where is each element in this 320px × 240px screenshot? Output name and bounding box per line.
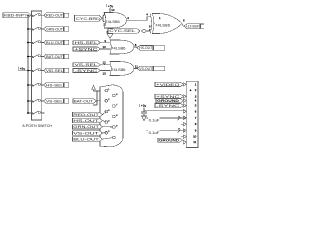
svg-text:11: 11 <box>193 140 196 144</box>
svg-text:74LS86: 74LS86 <box>155 24 170 28</box>
wire <box>103 126 113 128</box>
net label GROUND (to P2 pin 11) <box>158 138 183 142</box>
+5v tap on rail <box>19 67 28 71</box>
svg-text:VS-SEL: VS-SEL <box>75 63 98 67</box>
P2 pin 9 <box>183 129 186 132</box>
svg-text:GROUND: GROUND <box>159 139 180 143</box>
svg-text:VS-OUT: VS-OUT <box>73 131 99 135</box>
net label VS-SEL (to gate) <box>73 63 101 67</box>
diamond terminator <box>141 29 147 32</box>
switch S1-3 <box>27 41 44 45</box>
wire <box>103 138 113 139</box>
svg-text:GRN-OUT: GRN-OUT <box>73 125 99 129</box>
P1 pin 4 <box>105 121 108 124</box>
wires into U1C <box>101 43 111 49</box>
svg-text:HS-SEL: HS-SEL <box>46 83 63 87</box>
net label +SYNC <box>155 94 184 99</box>
svg-text:+5v: +5v <box>141 104 147 108</box>
net label BAT-OUT row4 <box>44 54 69 59</box>
P1 pin 5 <box>105 131 108 134</box>
svg-text:+12-BUF: +12-BUF <box>186 25 200 29</box>
net label GROUND <box>156 99 184 103</box>
P2 pin 3 <box>183 95 186 98</box>
wire input rail <box>28 15 32 113</box>
svg-text:14: 14 <box>111 8 115 12</box>
svg-text:VS-SEL: VS-SEL <box>46 99 63 103</box>
svg-text:HS-OUT: HS-OUT <box>139 46 152 50</box>
ground bus at P1 <box>93 91 97 105</box>
svg-text:74LS86: 74LS86 <box>111 46 126 50</box>
switch S1-1 <box>27 13 44 17</box>
svg-text:13: 13 <box>103 72 107 76</box>
svg-text:0.1uF: 0.1uF <box>149 119 160 123</box>
ground arrow at P1 <box>92 85 96 91</box>
svg-text:BAT-OUT: BAT-OUT <box>74 99 93 103</box>
+5v to U1A pin 14 <box>107 4 115 13</box>
capacitor C2 label 0.1uF <box>148 117 160 122</box>
switch S1-7 <box>27 99 44 103</box>
svg-text:RED-OUT: RED-OUT <box>73 113 99 117</box>
svg-text:BLU-OUT: BLU-OUT <box>73 137 99 141</box>
wire gnd to P1 pin1 <box>94 90 105 92</box>
net label RED-OUT row1 <box>44 13 69 18</box>
P1 pin 2 <box>105 99 108 102</box>
net label -SYNC <box>155 104 184 109</box>
svg-text:CYC-BRD: CYC-BRD <box>76 17 101 21</box>
P2 pin 6 <box>183 110 186 113</box>
net label KBD-INP <box>3 13 31 18</box>
connector P2 outline <box>186 81 198 147</box>
svg-text:BAT-OUT: BAT-OUT <box>46 55 63 59</box>
switch S1-6 <box>27 83 44 87</box>
svg-text:HS-OUT: HS-OUT <box>73 119 99 123</box>
wire U1A out to U1B pin4 <box>127 17 152 20</box>
xor gate U1A 74LS86 <box>105 13 127 29</box>
switch S1-4 <box>27 55 44 59</box>
svg-text:GROUND: GROUND <box>157 99 180 103</box>
svg-text:RED-OUT: RED-OUT <box>46 13 63 17</box>
wire <box>183 140 187 142</box>
P2 pin 2 (n/c dot) <box>190 89 192 91</box>
net label GRN-OUT (to P1) <box>73 125 103 129</box>
net label VS-OUT <box>137 66 165 71</box>
net label +VIDEO <box>155 82 184 87</box>
connector P1 DB9 outline <box>100 85 123 147</box>
svg-text:-SYNC: -SYNC <box>75 69 99 73</box>
xor gate U1C 74LS86 <box>110 40 134 54</box>
P2 pin 10 <box>183 135 186 138</box>
switch box outline S1 <box>32 11 42 120</box>
svg-text:0.1uF: 0.1uF <box>149 131 160 135</box>
P2 pin 5 <box>183 104 186 107</box>
net label CYC-SEL <box>108 29 140 34</box>
wire to U1A inputs <box>102 16 105 22</box>
svg-text:74LS86: 74LS86 <box>111 68 126 72</box>
wire U1B out <box>182 24 184 27</box>
wire to P2 pin 9 <box>147 129 187 131</box>
wire <box>103 121 107 122</box>
net label VS-SEL row7 <box>44 99 69 104</box>
wire U1D out <box>134 68 137 70</box>
svg-text:VID-SEL: VID-SEL <box>46 69 63 73</box>
P2 pin 8 <box>183 123 186 126</box>
P2 pin 7 <box>183 116 186 119</box>
xor gate U1D 74LS86 <box>110 62 134 76</box>
svg-text:CYC-SEL: CYC-SEL <box>109 29 135 33</box>
P2 pin 1 <box>183 83 186 86</box>
svg-text:HS-SEL: HS-SEL <box>75 41 98 45</box>
ground pin 7 of U1 <box>106 28 113 39</box>
capacitor C1 <box>141 108 147 121</box>
svg-text:+SYNC: +SYNC <box>75 47 99 51</box>
net label VID-SEL row5 <box>44 68 69 73</box>
P1 pin 8 <box>113 115 116 118</box>
svg-text:GRN-OUT: GRN-OUT <box>46 27 63 31</box>
wire <box>103 132 107 134</box>
+5v supply for P2 pin 6 <box>140 104 147 108</box>
capacitor C3 label 0.1uF <box>148 130 160 135</box>
svg-text:10: 10 <box>193 135 197 139</box>
net label GRN-OUT row2 <box>44 27 69 32</box>
wire to U1B pin5 <box>147 29 151 31</box>
svg-text:+5v: +5v <box>20 67 26 71</box>
P2 pin 11 <box>183 141 186 144</box>
net label HS-SEL (to gate) <box>73 41 101 45</box>
net label BAT-OUT (to P1) <box>73 99 97 104</box>
switch S1-8 <box>27 111 44 115</box>
wire to P1 pin2 <box>97 100 105 102</box>
net label HS-SEL row6 <box>44 83 69 88</box>
svg-text:KBD-INP?: KBD-INP? <box>4 14 27 18</box>
svg-text:+VIDEO: +VIDEO <box>156 83 180 87</box>
no-connect marker on pin9 wire <box>178 128 181 132</box>
svg-text:VS-OUT: VS-OUT <box>139 67 152 71</box>
svg-text:12: 12 <box>103 60 107 64</box>
P1 pin 1 <box>105 89 108 92</box>
wires into U1D <box>101 64 111 70</box>
svg-text:10: 10 <box>103 45 107 49</box>
no-connect marker on pin7 wire <box>178 116 181 120</box>
svg-text:74LS86: 74LS86 <box>105 20 120 24</box>
svg-text:8-POS'N SWITCH: 8-POS'N SWITCH <box>23 124 53 128</box>
P1 pin 9 <box>113 126 116 129</box>
wire to P2 pin 7 <box>147 117 187 119</box>
net label HS-OUT <box>137 46 165 51</box>
P1 pin 6 <box>113 94 116 97</box>
switch S1-5 <box>27 69 44 73</box>
switch S1-2 <box>27 27 44 31</box>
net label VS-OUT (to P1) <box>73 131 103 135</box>
P1 pin 10 <box>113 136 116 139</box>
net label +12-BUF <box>184 24 204 29</box>
svg-text:-SYNC: -SYNC <box>156 104 181 108</box>
xor gate U1B 74LS86 <box>150 14 182 34</box>
wire <box>103 112 107 115</box>
P1 pin 7 <box>113 105 116 108</box>
P2 pin 4 <box>183 99 186 102</box>
P1 pin 3 <box>105 110 108 113</box>
net label -SYNC (to gate) <box>73 69 101 73</box>
net label HS-OUT (to P1) <box>73 118 103 122</box>
wire U1C out <box>134 46 137 49</box>
wire +5v node to P2 pin 6 <box>144 110 187 111</box>
net label +SYNC (to gate) <box>73 47 101 51</box>
net label CYC-BRD <box>75 15 103 21</box>
net label BLU-OUT (to P1) <box>73 137 103 141</box>
net label BLU-OUT row3 <box>44 40 69 45</box>
net label RED-OUT (to P1) <box>73 112 103 116</box>
svg-text:BLU-OUT: BLU-OUT <box>46 41 63 45</box>
